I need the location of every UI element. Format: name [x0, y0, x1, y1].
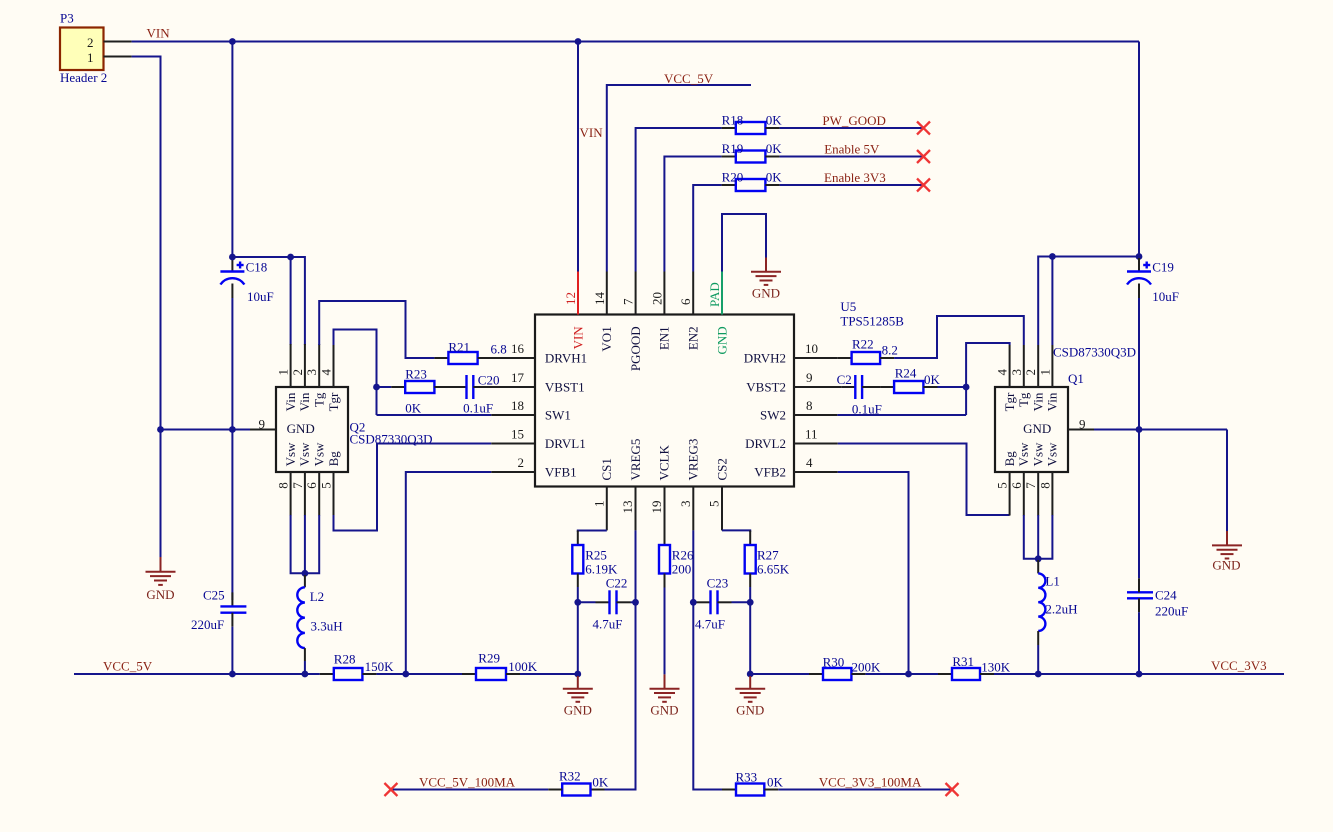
node C19 branch	[1136, 253, 1143, 260]
svg-text:Tgr: Tgr	[326, 392, 341, 411]
capacitor C23	[693, 576, 750, 632]
svg-text:150K: 150K	[365, 659, 395, 674]
svg-text:R23: R23	[405, 367, 427, 382]
svg-text:0K: 0K	[766, 112, 783, 127]
svg-text:DRVH1: DRVH1	[545, 351, 587, 366]
wire PAD to GND	[722, 214, 766, 272]
wire VFB1 feedback	[406, 472, 492, 674]
pin 12 of U5 VIN	[563, 272, 585, 350]
pin 2 of Q1	[1023, 345, 1045, 411]
pin 2 of P3	[104, 41, 132, 43]
node Q2 pin1 tap	[287, 254, 294, 261]
svg-text:TPS51285B: TPS51285B	[840, 314, 904, 329]
svg-text:12: 12	[563, 292, 578, 305]
pin 15 stub DRVL1	[491, 443, 535, 445]
pin 10 stub DRVH2	[794, 357, 838, 359]
no-ERC cross PW_GOOD	[917, 122, 930, 135]
node C23 right	[747, 599, 754, 606]
svg-text:GND: GND	[714, 326, 729, 354]
svg-text:6.65K: 6.65K	[757, 562, 790, 577]
svg-text:Vsw: Vsw	[312, 442, 327, 466]
svg-text:Vsw: Vsw	[283, 442, 298, 466]
resistor R33	[722, 770, 784, 796]
svg-text:Tgr: Tgr	[1002, 392, 1017, 411]
svg-text:R25: R25	[585, 548, 607, 563]
svg-text:SW1: SW1	[545, 408, 571, 423]
svg-text:1: 1	[276, 369, 291, 376]
svg-text:6: 6	[1009, 482, 1024, 489]
svg-text:11: 11	[805, 427, 818, 442]
resistor R30	[809, 654, 881, 680]
wire VREG5 column	[605, 530, 636, 789]
svg-text:130K: 130K	[981, 660, 1011, 675]
wire R24 to SW2 and Q1 Tgr	[938, 343, 1010, 415]
svg-text:8.2: 8.2	[882, 343, 898, 358]
svg-text:GND: GND	[1212, 558, 1240, 573]
node VIN / C18 junction	[229, 38, 236, 45]
svg-text:VBST1: VBST1	[545, 380, 585, 395]
wire VCC_3V3 rail	[750, 673, 1284, 675]
net label VCC_5V_100MA	[419, 775, 516, 790]
wire DRVL2 to Q1 Bg	[838, 444, 1010, 516]
wire Q2 pin1 column	[290, 257, 292, 345]
transistor Q1	[995, 345, 1136, 473]
svg-text:18: 18	[511, 398, 524, 413]
svg-text:Vsw: Vsw	[1031, 442, 1046, 466]
wire C18 to GND net	[231, 298, 233, 600]
connector P3	[60, 11, 107, 85]
svg-text:10uF: 10uF	[1152, 289, 1179, 304]
svg-text:VO1: VO1	[599, 326, 614, 351]
svg-text:Tg: Tg	[1016, 392, 1031, 407]
svg-text:VREG3: VREG3	[686, 439, 701, 481]
svg-text:10: 10	[805, 341, 818, 356]
wire SW1	[377, 414, 492, 416]
node pin9 at header column	[157, 426, 164, 433]
pin 2 stub VFB1	[491, 471, 535, 473]
resistor R22	[838, 337, 898, 365]
wire SW2	[837, 414, 966, 416]
svg-text:3: 3	[1009, 369, 1024, 376]
pin 8 of Q2	[276, 442, 298, 516]
capacitor C24	[1127, 578, 1188, 618]
wire Q2 Tg to R21	[319, 301, 434, 358]
svg-text:200K: 200K	[852, 660, 882, 675]
svg-text:VIN: VIN	[580, 125, 604, 140]
pin 3 of Q1	[1009, 345, 1031, 407]
pin 1 of U5 CS1	[591, 458, 614, 530]
pin 4 of U5 VFB2	[754, 455, 813, 480]
svg-text:C2: C2	[837, 372, 852, 387]
capacitor C20	[463, 373, 535, 416]
svg-text:6: 6	[678, 298, 693, 305]
svg-text:Vsw: Vsw	[1045, 442, 1060, 466]
wire VCC_5V_100MA	[391, 789, 548, 791]
svg-text:VCC_5V_100MA: VCC_5V_100MA	[419, 775, 516, 790]
net label VCC_3V3	[1211, 658, 1267, 673]
svg-text:0K: 0K	[766, 169, 783, 184]
pin 4 of Q2	[319, 344, 341, 411]
svg-text:0K: 0K	[767, 775, 784, 790]
svg-text:VCC_3V3: VCC_3V3	[1211, 658, 1267, 673]
wire VBST1	[377, 386, 392, 388]
svg-text:0K: 0K	[592, 775, 609, 790]
svg-text:R32: R32	[559, 769, 581, 784]
pin 1 of Q1	[1037, 345, 1059, 411]
wire R26 to ground	[664, 588, 666, 675]
svg-text:0K: 0K	[766, 141, 783, 156]
net label VCC_3V3_100MA	[819, 775, 922, 790]
svg-text:3: 3	[678, 501, 693, 508]
svg-text:VCC_5V: VCC_5V	[103, 659, 153, 674]
pin 4 of Q1	[995, 345, 1017, 411]
svg-text:C18: C18	[246, 259, 268, 274]
pin 13 of U5 VREG5	[620, 439, 643, 531]
inductor L2	[297, 575, 342, 661]
pin 17 of U5 VBST1	[511, 370, 585, 395]
pin 20 of U5 EN1	[649, 272, 671, 351]
svg-text:GND: GND	[650, 703, 678, 718]
svg-text:5: 5	[995, 482, 1010, 489]
svg-text:R18: R18	[722, 112, 744, 127]
svg-text:15: 15	[511, 427, 524, 442]
svg-text:SW2: SW2	[760, 408, 786, 423]
svg-text:R20: R20	[722, 169, 744, 184]
svg-text:PAD: PAD	[707, 282, 722, 307]
svg-text:2: 2	[1023, 369, 1038, 376]
svg-text:4: 4	[806, 455, 813, 470]
node rail C24	[1136, 671, 1143, 678]
resistor R32	[548, 769, 609, 796]
pin 11 of U5 DRVL2	[745, 427, 817, 452]
svg-text:0K: 0K	[405, 401, 422, 416]
ground GND right of Q1	[1212, 531, 1242, 573]
wire DRVL1 to Q2 Bg	[334, 444, 492, 531]
node rail VFB2	[905, 671, 912, 678]
wire VO1 to VCC_5V	[607, 85, 751, 272]
svg-text:220uF: 220uF	[1155, 604, 1188, 619]
svg-text:6.19K: 6.19K	[585, 562, 618, 577]
svg-text:8: 8	[276, 482, 291, 489]
svg-text:9: 9	[259, 417, 266, 432]
svg-text:L1: L1	[1045, 574, 1059, 589]
pin 10 of U5 DRVH2	[744, 341, 818, 366]
node C22 left	[574, 599, 581, 606]
wire VIN to U5 pin 12	[577, 42, 579, 272]
net label VCC_5V rail	[103, 659, 153, 674]
svg-text:VCC_5V: VCC_5V	[664, 71, 714, 86]
wire Q1 pin9 to GND	[1094, 430, 1227, 532]
wire EN1	[664, 157, 721, 272]
wire PW_GOOD	[780, 127, 924, 129]
svg-text:EN2: EN2	[686, 326, 701, 350]
svg-text:1: 1	[87, 50, 94, 65]
capacitor C19	[1127, 258, 1179, 304]
ground GND under R26	[650, 674, 680, 717]
svg-text:VFB1: VFB1	[545, 465, 577, 480]
svg-text:Vin: Vin	[1045, 392, 1060, 411]
svg-text:P3: P3	[60, 11, 74, 26]
svg-text:2.2uH: 2.2uH	[1045, 602, 1077, 617]
pin 5 of Q1	[995, 451, 1017, 516]
pin 7 of U5 PGOOD	[621, 272, 643, 372]
svg-text:8: 8	[806, 398, 813, 413]
pin 3 of Q2	[304, 344, 326, 407]
svg-text:PGOOD: PGOOD	[628, 326, 643, 371]
wire Q2 Vsw to L2	[291, 515, 320, 575]
wire Q1 Vin columns	[1038, 257, 1139, 346]
svg-text:VBST2: VBST2	[746, 380, 786, 395]
pin 8 stub SW2	[794, 414, 837, 416]
node C18 branch	[229, 254, 236, 261]
node VBST2 branch	[963, 384, 970, 391]
pin 7 of Q1	[1023, 442, 1045, 516]
svg-text:7: 7	[621, 298, 636, 305]
node rail L1	[1035, 671, 1042, 678]
svg-text:R33: R33	[736, 770, 758, 785]
pin 6 of U5 EN2	[678, 272, 700, 351]
ground GND under divider right	[735, 676, 765, 718]
svg-text:17: 17	[511, 370, 525, 385]
svg-text:Bg: Bg	[1002, 451, 1017, 467]
svg-text:VREG5: VREG5	[628, 439, 643, 481]
wire Q1 Vsw to L1	[1024, 515, 1053, 560]
svg-text:R22: R22	[852, 337, 874, 352]
svg-text:R30: R30	[823, 654, 845, 669]
pin PAD of U5 GND	[707, 272, 729, 355]
node L2 top	[302, 570, 309, 577]
svg-text:Enable 3V3: Enable 3V3	[824, 170, 886, 185]
svg-text:7: 7	[1023, 482, 1038, 489]
svg-text:U5: U5	[840, 299, 856, 314]
wire L2 to rail	[304, 661, 306, 674]
node VBST1 branch	[373, 384, 380, 391]
svg-text:8: 8	[1037, 482, 1052, 489]
pin 2 of Q2	[290, 344, 312, 411]
net label Enable 3V3	[824, 170, 886, 185]
svg-text:Enable 5V: Enable 5V	[824, 141, 880, 156]
svg-text:R28: R28	[334, 651, 356, 666]
pin 15 of U5 DRVL1	[511, 427, 586, 452]
wire Vin branch Q2	[232, 257, 305, 345]
svg-text:16: 16	[511, 341, 525, 356]
node pin9 at C18 column	[229, 426, 236, 433]
no-ERC cross Enable 5V	[917, 150, 930, 163]
no-ERC cross VCC_3V3_100MA	[946, 783, 959, 796]
svg-text:4.7uF: 4.7uF	[695, 617, 725, 632]
resistor R29	[462, 651, 538, 681]
net label PW_GOOD	[822, 113, 886, 128]
wire VCC_3V3_100MA	[778, 789, 952, 791]
svg-text:DRVL1: DRVL1	[545, 436, 586, 451]
svg-text:3: 3	[304, 369, 319, 376]
svg-text:13: 13	[620, 501, 635, 514]
resistor R18	[722, 112, 783, 134]
pin 9 stub VBST2	[794, 386, 841, 388]
wire L1 to rail	[1037, 645, 1039, 674]
wire VCC_5V rail	[74, 673, 578, 675]
capacitor C25	[191, 588, 246, 633]
pin 8 of Q1	[1037, 442, 1059, 516]
svg-text:Vin: Vin	[297, 392, 312, 411]
svg-text:3.3uH: 3.3uH	[311, 618, 343, 633]
svg-text:5: 5	[707, 501, 722, 508]
wire Enable 3V3	[780, 184, 924, 186]
svg-text:GND: GND	[1023, 421, 1051, 436]
wire C24 to rail	[1138, 612, 1140, 674]
svg-text:Vin: Vin	[283, 392, 298, 411]
svg-text:Q1: Q1	[1068, 371, 1084, 386]
capacitor C18	[220, 258, 273, 304]
wire Q2 pin9 GND	[161, 429, 251, 431]
svg-text:4: 4	[995, 369, 1010, 376]
node pin9 at C19 column	[1136, 426, 1143, 433]
svg-text:R26: R26	[672, 548, 694, 563]
resistor R19	[722, 141, 783, 163]
svg-text:C19: C19	[1152, 259, 1174, 274]
pin 9 of U5 VBST2	[746, 370, 812, 395]
transistor Q2	[276, 387, 433, 472]
pin 18 of U5 SW1	[511, 398, 571, 423]
svg-text:GND: GND	[146, 587, 174, 602]
svg-text:Vsw: Vsw	[1016, 442, 1031, 466]
wire R22 to Q1 Tg	[894, 316, 1024, 358]
no-ERC cross Enable 3V3	[917, 179, 930, 192]
svg-text:GND: GND	[564, 703, 592, 718]
resistor R25	[572, 531, 618, 588]
net label Enable 5V	[824, 141, 880, 156]
capacitor C2	[837, 372, 882, 417]
svg-text:Vsw: Vsw	[297, 442, 312, 466]
svg-text:R24: R24	[895, 366, 917, 381]
svg-text:9: 9	[1079, 417, 1086, 432]
op-amp U5 box	[535, 299, 904, 487]
svg-text:PW_GOOD: PW_GOOD	[822, 113, 886, 128]
svg-text:VIN: VIN	[570, 326, 585, 350]
pin 4 stub VFB2	[794, 471, 838, 473]
svg-text:1: 1	[1037, 369, 1052, 376]
resistor R27	[745, 530, 790, 587]
svg-text:Bg: Bg	[326, 451, 341, 467]
node C22 right on VREG5 column	[632, 599, 639, 606]
svg-text:C24: C24	[1155, 588, 1177, 603]
wire PGOOD	[636, 128, 722, 272]
wire VIN rail	[132, 41, 1139, 43]
svg-text:0K: 0K	[924, 372, 941, 387]
svg-text:7: 7	[290, 482, 305, 489]
pin 19 of U5 VCLK	[649, 445, 672, 532]
svg-text:DRVL2: DRVL2	[745, 436, 786, 451]
wire C19 to pin9 net	[1138, 298, 1140, 578]
svg-text:14: 14	[592, 292, 607, 306]
wire R25 to C22 node	[577, 587, 579, 674]
wire C25 to rail	[231, 627, 233, 674]
svg-text:DRVH2: DRVH2	[744, 351, 786, 366]
pin 11 stub DRVL2	[794, 443, 838, 445]
wire P3 pin1 to ground	[132, 57, 161, 558]
svg-text:VIN: VIN	[147, 26, 171, 41]
node VIN / U5 pin12 junction	[575, 38, 582, 45]
pin 1 of Q2	[276, 344, 298, 411]
wire Enable 5V	[780, 156, 924, 158]
svg-text:2: 2	[87, 35, 94, 50]
pin 9 of Q1	[1068, 417, 1094, 432]
svg-text:5: 5	[319, 482, 334, 489]
ground GND under divider left	[563, 676, 593, 718]
svg-text:4.7uF: 4.7uF	[593, 617, 623, 632]
svg-text:VCC_3V3_100MA: VCC_3V3_100MA	[819, 775, 922, 790]
wire EN2	[693, 185, 721, 272]
svg-text:C20: C20	[478, 373, 500, 388]
svg-text:EN1: EN1	[657, 326, 672, 350]
pin 6 of Q1	[1009, 442, 1031, 516]
node rail GND left divider	[574, 671, 581, 678]
capacitor C22	[578, 576, 636, 632]
svg-text:4: 4	[319, 369, 334, 376]
node Q1 pin1 tap	[1049, 253, 1056, 260]
resistor R26	[659, 532, 694, 588]
svg-text:6.8: 6.8	[491, 342, 507, 357]
svg-text:220uF: 220uF	[191, 617, 224, 632]
svg-text:1: 1	[591, 501, 606, 508]
pin 7 of Q2	[290, 442, 312, 516]
pin 1 of P3	[104, 56, 132, 58]
svg-text:CS2: CS2	[714, 458, 729, 480]
node rail VFB1	[402, 671, 409, 678]
svg-text:GND: GND	[752, 286, 780, 301]
no-ERC cross VCC_5V_100MA	[384, 783, 397, 796]
resistor R28	[320, 651, 394, 680]
pin 9 of Q2	[250, 417, 276, 432]
wire VREG3 column	[693, 530, 722, 789]
node C23 left	[690, 599, 697, 606]
svg-text:VCLK: VCLK	[657, 445, 672, 481]
pin 2 of U5 VFB1	[518, 455, 577, 480]
svg-text:2: 2	[518, 455, 525, 470]
svg-text:19: 19	[649, 501, 664, 514]
wire VIN to C19	[1138, 42, 1140, 259]
svg-text:R31: R31	[952, 654, 974, 669]
svg-text:GND: GND	[736, 703, 764, 718]
svg-text:20: 20	[649, 292, 664, 305]
svg-text:CSD87330Q3D: CSD87330Q3D	[1053, 345, 1136, 360]
svg-text:200: 200	[672, 562, 692, 577]
svg-text:R27: R27	[757, 548, 779, 563]
resistor R31	[938, 654, 1011, 680]
svg-text:0.1uF: 0.1uF	[463, 401, 493, 416]
svg-text:C25: C25	[203, 588, 225, 603]
svg-text:Header 2: Header 2	[60, 70, 107, 85]
wire VFB2 feedback	[838, 472, 909, 674]
svg-text:R29: R29	[478, 651, 500, 666]
net label VIN	[147, 26, 171, 41]
node rail GND right divider	[747, 671, 754, 678]
svg-text:R21: R21	[448, 340, 470, 355]
pin 8 of U5 SW2	[760, 398, 813, 423]
svg-text:Tg: Tg	[312, 392, 327, 407]
svg-text:6: 6	[304, 482, 319, 489]
svg-text:Vin: Vin	[1031, 392, 1046, 411]
pin 14 of U5 VO1	[592, 272, 614, 352]
pin 18 stub SW1	[491, 414, 535, 416]
svg-text:9: 9	[806, 370, 813, 385]
wire CS2 to R27	[722, 530, 750, 532]
ground GND at PAD	[751, 258, 781, 301]
svg-text:CS1: CS1	[599, 458, 614, 480]
wire VIN to C18	[231, 42, 233, 259]
resistor R20	[722, 169, 783, 191]
node rail L2	[302, 671, 309, 678]
